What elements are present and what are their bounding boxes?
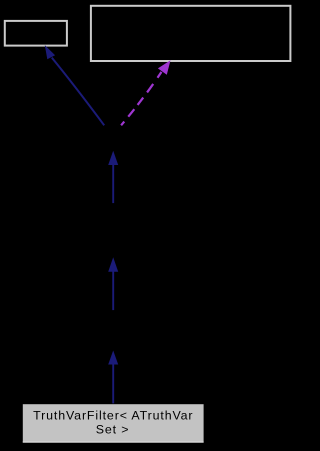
vertical inheritance arrow 3 (bottom, from TruthVarFilter) bbox=[108, 351, 118, 404]
svg-text:Set >: Set > bbox=[96, 423, 130, 437]
node TruthVarFilter< ATruthVarSet > bbox=[23, 404, 204, 442]
light inner bottom edge of node bbox=[23, 441, 204, 443]
vertical inheritance arrow 1 (topmost) bbox=[108, 151, 118, 203]
svg-text:TruthVarFilter< ATruthVar: TruthVarFilter< ATruthVar bbox=[33, 408, 193, 422]
vertical inheritance arrow 2 (middle) bbox=[108, 257, 118, 310]
usage arrow (dashed, to top-right box) bbox=[120, 60, 170, 126]
node box top-left (base class, unlabeled) bbox=[5, 21, 67, 46]
node box top-right (related class, unlabeled) bbox=[91, 6, 291, 61]
inheritance arrow (solid, to top-left box) bbox=[45, 45, 104, 125]
